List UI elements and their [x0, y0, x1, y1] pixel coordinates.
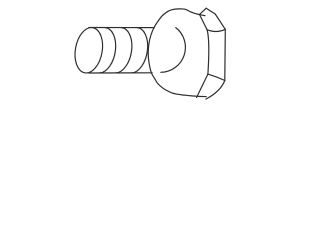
hexagon upper-left front edge J1-V1	[200, 15, 208, 30]
chamfer arc on right facet V1-V2	[207, 30, 209, 75]
thread arc 1	[100, 28, 116, 73]
chamfer arc on upper-right facet V1-C1	[207, 29, 225, 31]
thread arc 2	[116, 28, 132, 73]
hex outer top-right silhouette edge	[206, 8, 225, 29]
thread arc 3	[132, 28, 148, 73]
hex right silhouette edge	[224, 29, 227, 80]
hexagon lower-left front edge from V2	[197, 74, 208, 97]
hex outer bottom silhouette edge	[206, 81, 225, 100]
shaft bottom line	[89, 72, 152, 74]
washer-boss arc at shaft base	[161, 28, 186, 73]
shaft top line	[89, 27, 154, 29]
bolt thread-end ellipse	[72, 25, 106, 75]
hex apex edge (front hexagon top-left edge)	[200, 8, 207, 14]
flange outer rim curve	[148, 9, 206, 97]
chamfer arc on bottom-right facet V2-C2	[208, 74, 225, 80]
